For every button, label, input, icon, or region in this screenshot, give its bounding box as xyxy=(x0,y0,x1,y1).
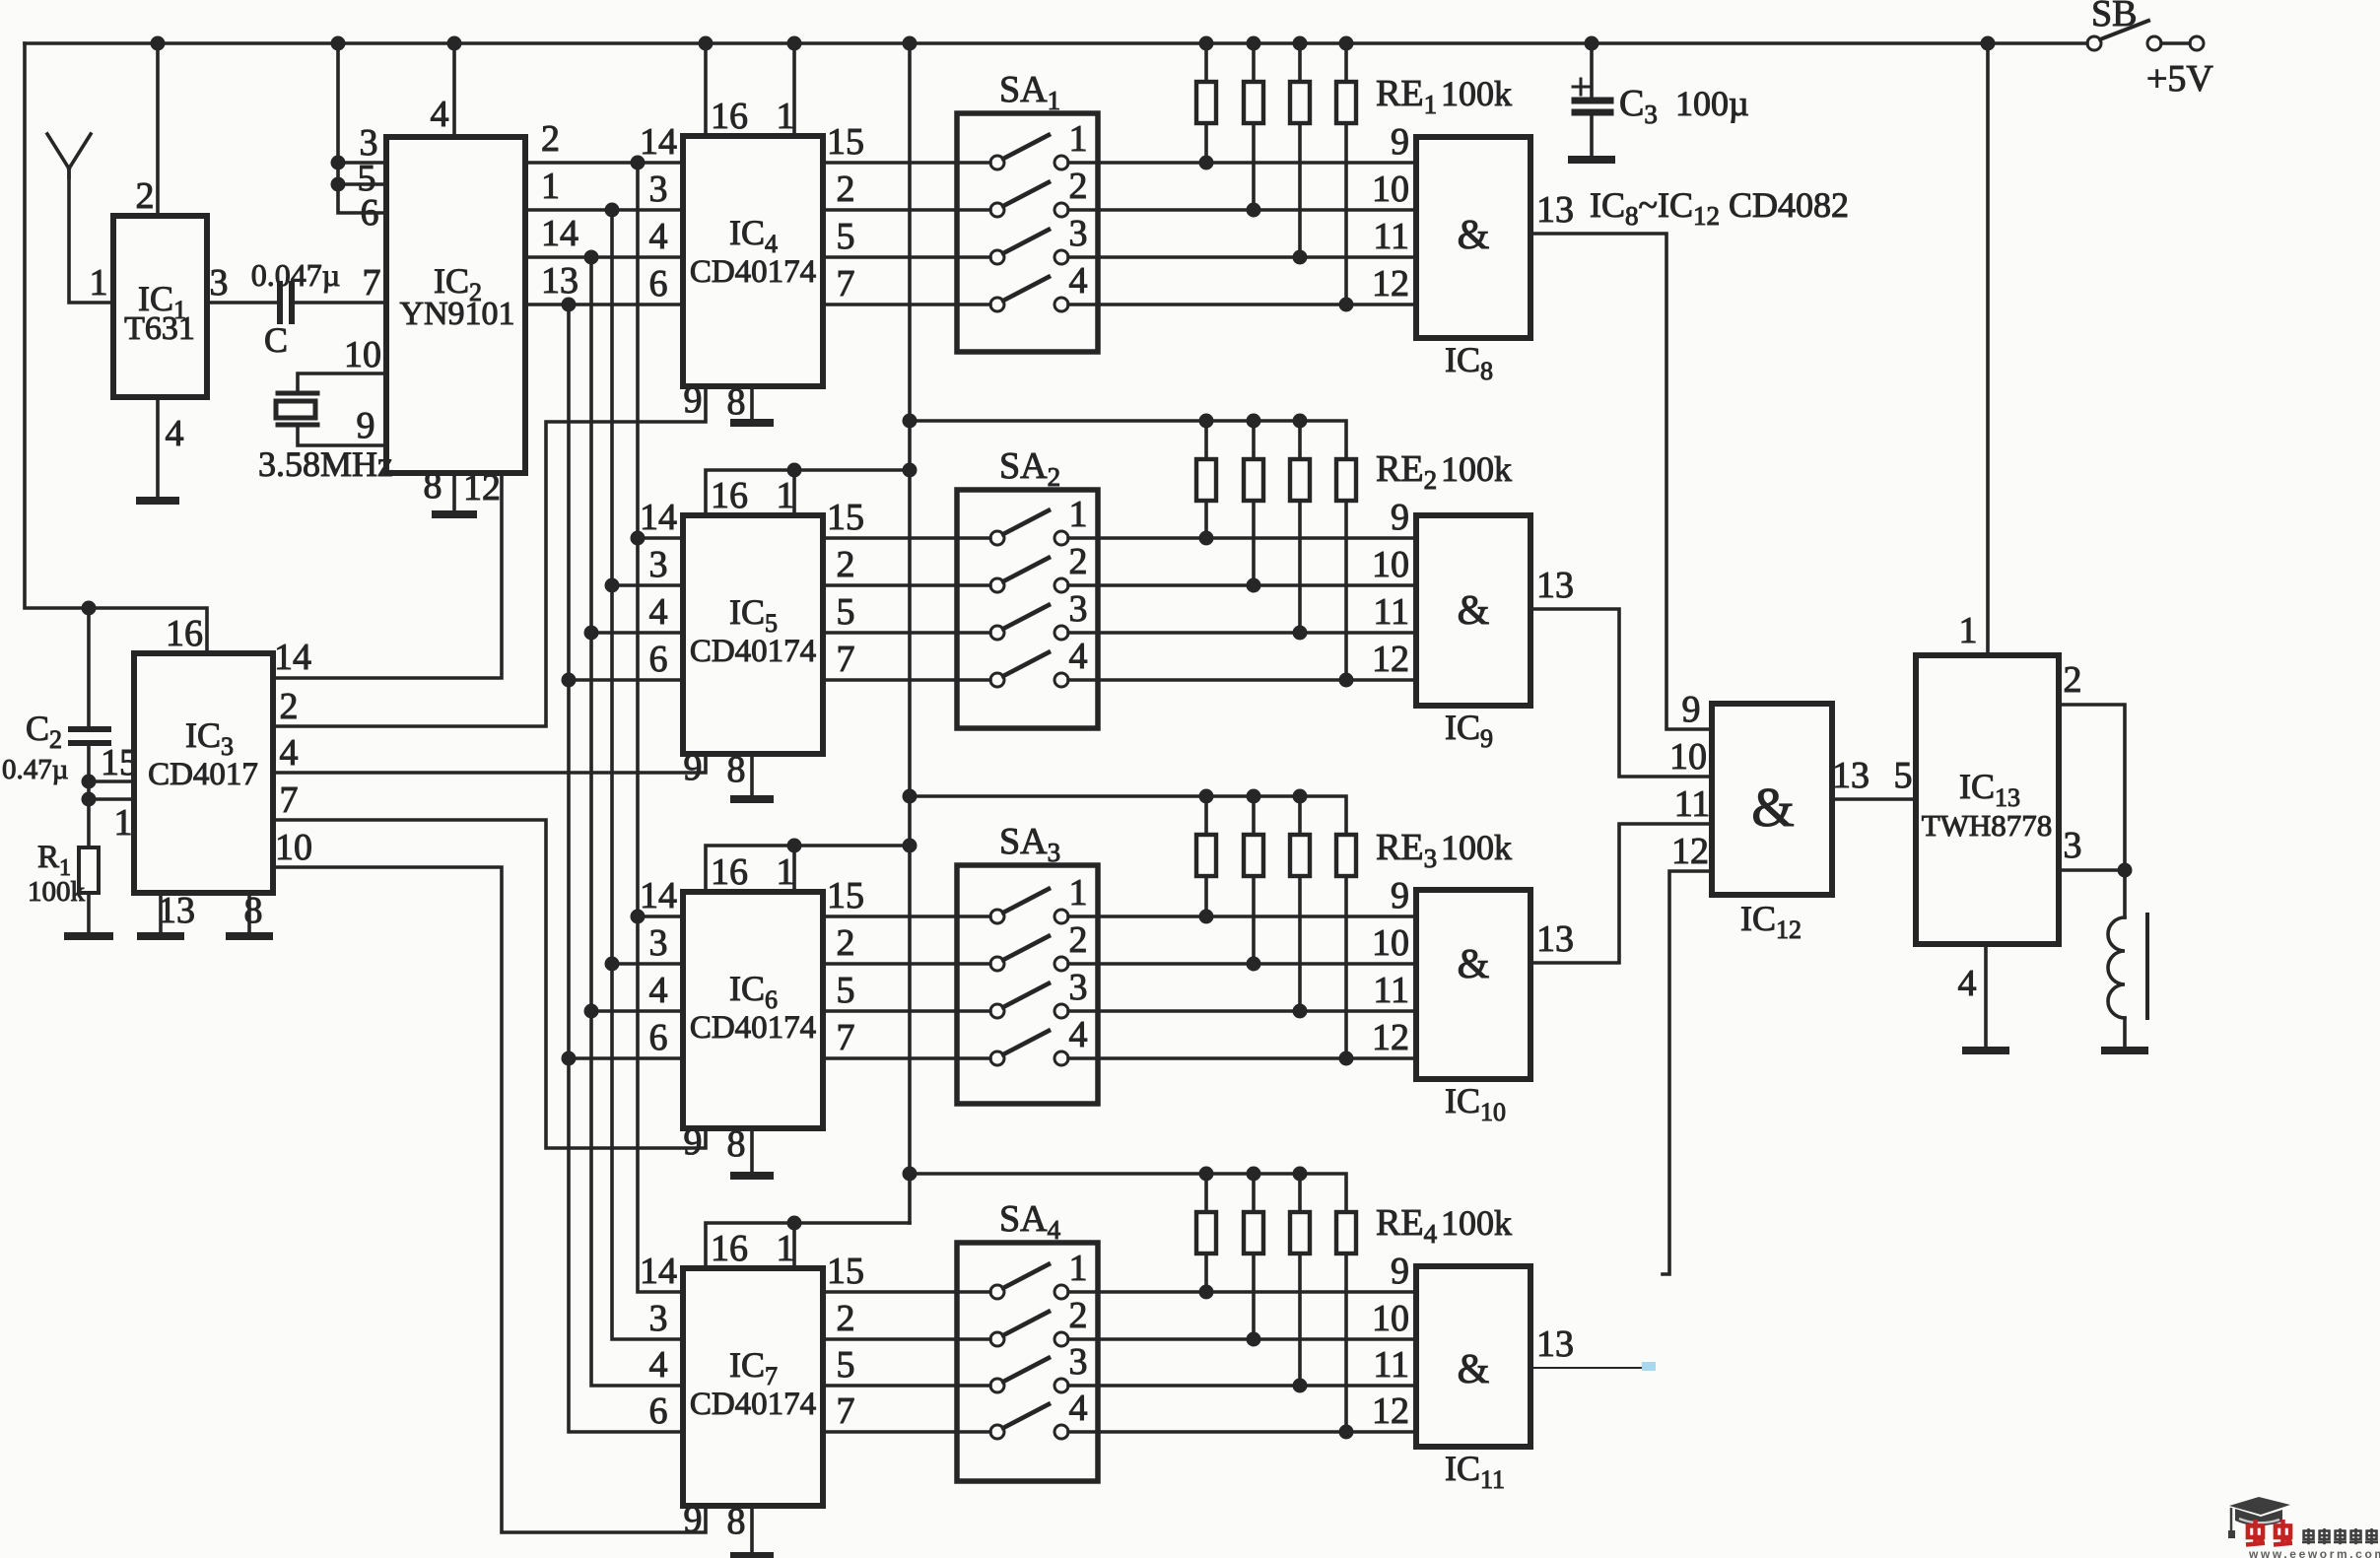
pin 2 label IC4 right xyxy=(837,169,855,210)
resistor RE2 unit 2 100k xyxy=(1244,421,1263,585)
svg-text:5: 5 xyxy=(837,1344,855,1386)
watermark www.eeworm.com xyxy=(2248,1547,2380,1558)
label RE1 100k xyxy=(1376,73,1512,119)
label IC4 CD40174 xyxy=(690,213,816,290)
capacitor C2 label xyxy=(26,709,62,754)
wire: SA2 contact 2 to IC9 input xyxy=(1068,578,1416,593)
resistor RE3 unit 1 100k xyxy=(1196,796,1216,916)
label SA1 contact 3 xyxy=(1069,213,1088,254)
pin 4 label IC2 xyxy=(431,94,449,135)
pin 10 label IC9 xyxy=(1372,544,1409,585)
pin 7 label IC4 right xyxy=(837,263,855,305)
pin 8 label IC4 bottom xyxy=(727,381,746,423)
svg-text:C: C xyxy=(264,320,288,360)
svg-text:13: 13 xyxy=(1536,189,1574,231)
IC1 box T631 xyxy=(113,216,207,397)
wire: crystal to IC2 pin 9 xyxy=(298,425,386,445)
wire: IC7 pin 2 to SA4 xyxy=(823,1337,990,1341)
svg-text:2: 2 xyxy=(2064,659,2082,701)
wire: IC4 pin 8 to ground xyxy=(750,386,754,420)
svg-text:2: 2 xyxy=(837,169,855,210)
wire: SA2 contact 1 to IC9 input xyxy=(1068,531,1416,546)
svg-text:4: 4 xyxy=(280,732,299,774)
label SA2 xyxy=(999,445,1060,492)
svg-text:9: 9 xyxy=(684,1499,703,1540)
ground: IC13 pin 4 xyxy=(1966,1047,2006,1054)
label SA3 contact 1 xyxy=(1069,872,1088,914)
label 0.047u xyxy=(251,257,340,293)
wire: IC1 pin 2 to rail xyxy=(156,43,160,216)
svg-text:4: 4 xyxy=(1958,963,1977,1004)
wire: SA3 contact 2 to IC10 input xyxy=(1068,957,1416,972)
wire: data bus line 2 to IC5 IC6 IC7 xyxy=(605,210,684,1339)
pin 9 label IC2 xyxy=(357,405,375,446)
inductor relay coil xyxy=(2108,914,2147,1018)
resistor RE1 unit 4 100k xyxy=(1336,43,1356,305)
svg-text:TWH8778: TWH8778 xyxy=(1922,808,2053,843)
wire: IC7 pin 8 to ground xyxy=(750,1506,754,1553)
wire: antenna to IC1 pin 1 xyxy=(69,169,113,303)
svg-text:7: 7 xyxy=(837,1390,855,1432)
svg-text:6: 6 xyxy=(649,263,668,305)
svg-text:10: 10 xyxy=(275,827,312,868)
label IC11 name xyxy=(1445,1449,1505,1494)
pin 16 label IC7 xyxy=(711,1228,748,1269)
pin 10 label IC12 xyxy=(1669,736,1707,778)
capacitor C3 100u xyxy=(1573,43,1610,156)
pin 2 label IC7 right xyxy=(837,1298,855,1339)
wire: IC11 pin 13 output xyxy=(1530,1362,1656,1371)
svg-text:100k: 100k xyxy=(1441,449,1512,489)
resistor RE4 unit 2 100k xyxy=(1244,1174,1263,1339)
pin 13 label IC10 xyxy=(1536,918,1574,960)
pin 8 label IC2 xyxy=(424,465,442,507)
svg-text:12: 12 xyxy=(1372,1390,1409,1432)
switch SA4 pole 3 xyxy=(990,1358,1068,1392)
switch SA2 pole 3 xyxy=(990,605,1068,640)
label IC5 CD40174 xyxy=(690,592,816,669)
pin 12 label IC8 xyxy=(1372,263,1409,305)
svg-text:3: 3 xyxy=(2064,825,2082,866)
pin 13 label IC9 xyxy=(1536,565,1574,606)
label SA2 contact 4 xyxy=(1069,636,1088,677)
AND gate IC10 box xyxy=(1416,890,1530,1079)
svg-text:100k: 100k xyxy=(1441,828,1512,867)
watermark dianzi xiazaizhan text xyxy=(2302,1528,2378,1544)
wire: rail to IC13 pin 1 xyxy=(1986,43,1990,655)
label amp IC8 xyxy=(1458,213,1490,258)
svg-text:4: 4 xyxy=(1069,1388,1088,1429)
wire: supply rail to RE4 xyxy=(910,1167,1346,1213)
wire: IC7 pins 16 1 supply xyxy=(706,1216,910,1269)
svg-text:16: 16 xyxy=(166,613,203,654)
pin 9 label IC6 bottom xyxy=(684,1121,703,1163)
svg-text:15: 15 xyxy=(827,875,864,916)
svg-text:6: 6 xyxy=(361,192,379,234)
svg-text:YN9101: YN9101 xyxy=(399,296,514,332)
IC6 box CD40174 xyxy=(683,892,823,1128)
pin 10 label IC10 xyxy=(1372,922,1409,964)
pin 10 label IC2 xyxy=(344,334,381,375)
svg-text:9: 9 xyxy=(357,405,375,446)
label SA2 contact 3 xyxy=(1069,588,1088,630)
svg-text:14: 14 xyxy=(640,497,677,538)
wire: IC4 pin 5 to SA1 xyxy=(823,255,990,259)
resistor RE3 unit 2 100k xyxy=(1244,796,1263,964)
svg-text:1: 1 xyxy=(1959,610,1978,651)
resistor RE4 unit 3 100k xyxy=(1290,1174,1310,1386)
svg-text:11: 11 xyxy=(1674,783,1711,825)
svg-text:9: 9 xyxy=(684,1121,703,1163)
IC7 box CD40174 xyxy=(683,1268,823,1506)
wire: IC5 pin 2 to SA2 xyxy=(823,583,990,587)
IC2 box YN9101 xyxy=(386,137,525,473)
svg-text:12: 12 xyxy=(1372,263,1409,305)
pin 1 label IC2 right xyxy=(541,166,560,207)
pin 5 label IC6 right xyxy=(837,970,855,1011)
label amp IC12 xyxy=(1751,778,1795,839)
svg-text:3: 3 xyxy=(1069,967,1088,1008)
wire: +5V top supply rail xyxy=(25,41,2087,45)
svg-text:+5V: +5V xyxy=(2146,58,2213,100)
svg-text:1: 1 xyxy=(1069,1248,1088,1289)
pin 15 label IC4 right xyxy=(827,121,864,163)
pin 2 label IC5 right xyxy=(837,544,855,585)
ground: IC5 pin 8 xyxy=(734,795,770,803)
AND gate IC11 box xyxy=(1416,1266,1530,1447)
svg-text:&: & xyxy=(1458,1347,1490,1392)
label IC13 TWH8778 xyxy=(1922,767,2053,843)
pin 9 label IC10 xyxy=(1391,875,1409,916)
svg-text:14: 14 xyxy=(640,1251,677,1292)
svg-text:3: 3 xyxy=(1069,213,1088,254)
pin 15 label IC7 right xyxy=(827,1251,864,1292)
svg-text:1: 1 xyxy=(114,802,133,844)
label IC12 name xyxy=(1740,899,1802,944)
svg-text:2: 2 xyxy=(136,175,155,217)
resistor RE2 unit 3 100k xyxy=(1290,421,1310,633)
svg-text:8: 8 xyxy=(727,749,746,790)
label C3 100u xyxy=(1619,83,1749,129)
ground: R1 xyxy=(68,932,109,940)
label SA4 contact 2 xyxy=(1069,1295,1088,1336)
wire: SA1 contact 1 to IC8 input xyxy=(1068,156,1416,170)
label IC8 name xyxy=(1445,340,1493,385)
svg-text:2: 2 xyxy=(1069,919,1088,961)
wire: SA3 contact 1 to IC10 input xyxy=(1068,910,1416,924)
watermark eeworm logo cap xyxy=(2228,1497,2290,1538)
pin 1 label IC7 xyxy=(777,1228,795,1269)
svg-text:0.047µ: 0.047µ xyxy=(251,257,340,293)
pin 4 label IC1 xyxy=(166,413,184,454)
wire: IC2 pin 10 to crystal xyxy=(298,373,386,393)
svg-text:2: 2 xyxy=(1069,1295,1088,1336)
svg-text:11: 11 xyxy=(1373,591,1409,633)
pin 1 label IC4 xyxy=(777,96,795,137)
svg-text:9: 9 xyxy=(684,379,703,421)
pin 1 label IC3 xyxy=(114,802,133,844)
label SA3 contact 3 xyxy=(1069,967,1088,1008)
switch SA4 pole 2 xyxy=(990,1312,1068,1346)
ground: IC7 pin 8 xyxy=(734,1552,770,1558)
resistor RE2 unit 4 100k xyxy=(1336,459,1356,680)
pin 9 label IC8 xyxy=(1391,121,1409,163)
svg-text:4: 4 xyxy=(649,591,668,633)
wire: left supply drop to IC3 pin 16 xyxy=(25,43,207,653)
wire: IC4 pin 2 to SA1 xyxy=(823,208,990,212)
svg-text:1: 1 xyxy=(777,96,795,137)
pin 4 label IC13 xyxy=(1958,963,1977,1004)
svg-text:10: 10 xyxy=(1372,544,1409,585)
IC4 box CD40174 xyxy=(683,136,823,386)
switch SA2 pole 2 xyxy=(990,558,1068,592)
label R1 xyxy=(37,840,71,881)
pin 2 label IC6 right xyxy=(837,922,855,964)
pin 13 label IC2 right xyxy=(541,260,578,302)
pin 15 label IC3 xyxy=(101,742,138,783)
pin 15 label IC5 right xyxy=(827,497,864,538)
pin 14 label IC4 left xyxy=(640,121,677,163)
svg-text:9: 9 xyxy=(1391,121,1409,163)
pin 12 label IC11 xyxy=(1372,1390,1409,1432)
wire: SA2 contact 4 to IC9 input xyxy=(1068,673,1416,688)
svg-text:8: 8 xyxy=(424,465,442,507)
wire: IC8 pin 13 to IC12 pin 9 xyxy=(1530,234,1712,729)
svg-text:8: 8 xyxy=(727,1501,746,1542)
pin 3 label IC1 xyxy=(210,262,229,304)
svg-text:&: & xyxy=(1751,778,1795,839)
wire: IC2 pin 2 row to IC4 xyxy=(525,156,683,170)
svg-text:7: 7 xyxy=(837,263,855,305)
ground: IC3 pin 13 xyxy=(141,932,180,940)
crystal 3.58MHz xyxy=(276,393,317,425)
SA4 switch box xyxy=(957,1243,1098,1481)
svg-text:3: 3 xyxy=(1069,1341,1088,1383)
wire: SA3 contact 4 to IC10 input xyxy=(1068,1051,1416,1066)
pin 8 label IC7 bottom xyxy=(727,1501,746,1542)
pin 12 label IC9 xyxy=(1372,639,1409,680)
wire: IC4 pins 16 1 to rail xyxy=(706,43,794,136)
svg-text:7: 7 xyxy=(363,262,381,304)
wire: IC5 pin 8 to ground xyxy=(750,754,754,796)
pin 3 label IC13 xyxy=(2064,825,2082,866)
svg-text:6: 6 xyxy=(649,1017,668,1058)
wire: IC2 pin 14 row to IC4 xyxy=(525,250,683,265)
svg-text:16: 16 xyxy=(711,851,748,893)
wire: IC3 pin 2 to IC4 pin 9 xyxy=(273,386,706,726)
wire: IC7 pin 5 to SA4 xyxy=(823,1384,990,1388)
svg-text:9: 9 xyxy=(1391,1251,1409,1292)
wire: IC5 pin 15 to SA2 xyxy=(823,536,990,540)
svg-text:15: 15 xyxy=(827,497,864,538)
wire: IC3 pin 10 to IC7 pin 9 xyxy=(273,867,706,1532)
resistor R1 100k xyxy=(79,847,99,893)
wire: coil to ground xyxy=(2123,1018,2127,1047)
label IC1 T631 xyxy=(124,279,195,347)
resistor RE4 unit 4 100k xyxy=(1336,1212,1356,1432)
wire: data bus line 4 to IC5 IC6 IC7 xyxy=(562,305,684,1432)
pin 14 label IC3 xyxy=(274,637,311,678)
svg-text:1: 1 xyxy=(90,262,108,304)
svg-text:11: 11 xyxy=(1373,970,1409,1011)
wire: IC6 pin 2 to SA3 xyxy=(823,962,990,966)
wire: SA2 contact 3 to IC9 input xyxy=(1068,626,1416,641)
svg-text:CD4017: CD4017 xyxy=(148,757,258,792)
svg-text:1: 1 xyxy=(777,1228,795,1269)
label RE4 100k xyxy=(1376,1202,1512,1249)
svg-text:11: 11 xyxy=(1373,1344,1409,1386)
switch SA1 pole 3 xyxy=(990,230,1068,264)
svg-text:15: 15 xyxy=(827,121,864,163)
pin 14 label IC5 left xyxy=(640,497,677,538)
label +5V xyxy=(2146,58,2213,100)
wire: SA1 contact 4 to IC8 input xyxy=(1068,298,1416,312)
pin 7 label IC5 right xyxy=(837,639,855,680)
svg-text:4: 4 xyxy=(1069,260,1088,302)
svg-text:CD40174: CD40174 xyxy=(690,634,816,669)
pin 7 label IC6 right xyxy=(837,1017,855,1058)
switch SA3 pole 4 xyxy=(990,1031,1068,1065)
AND gate IC12 box xyxy=(1712,704,1832,895)
svg-text:16: 16 xyxy=(711,1228,748,1269)
wire: IC2 pin 1 row to IC4 xyxy=(525,203,683,218)
wire: IC6 pin 15 to SA3 xyxy=(823,914,990,918)
pin 6 label IC6 left xyxy=(649,1017,668,1058)
wire: supply rail to RE2 xyxy=(910,414,1346,460)
resistor RE1 unit 1 100k xyxy=(1196,43,1216,163)
svg-text:2: 2 xyxy=(837,1298,855,1339)
pin 12 label IC2 xyxy=(463,467,501,508)
ground: IC3 pin 8 xyxy=(230,932,269,940)
svg-text:3: 3 xyxy=(649,544,668,585)
wire: IC1 pin 4 to ground xyxy=(156,397,160,498)
svg-text:CD40174: CD40174 xyxy=(690,1010,816,1046)
switch SA3 pole 1 xyxy=(990,889,1068,923)
wire: IC12 pin 12 stub xyxy=(1663,871,1712,1274)
IC13 box TWH8778 xyxy=(1916,655,2059,944)
pin 7 label IC7 right xyxy=(837,1390,855,1432)
svg-text:12: 12 xyxy=(463,467,501,508)
pin 13 label IC3 xyxy=(158,890,195,931)
label SA3 xyxy=(999,821,1060,867)
svg-text:4: 4 xyxy=(166,413,184,454)
SA2 switch box xyxy=(957,490,1098,728)
label IC9 name xyxy=(1445,708,1493,753)
svg-text:11: 11 xyxy=(1373,216,1409,257)
svg-text:&: & xyxy=(1458,942,1490,987)
label SA1 contact 1 xyxy=(1069,118,1088,160)
svg-text:4: 4 xyxy=(649,970,668,1011)
pin 1 label IC5 xyxy=(777,475,795,516)
pin 11 label IC12 xyxy=(1674,783,1711,825)
IC3 box CD4017 xyxy=(134,653,273,893)
wire: capacitor C to IC2 pin 7 xyxy=(292,301,386,305)
resistor RE2 unit 1 100k xyxy=(1196,421,1216,538)
switch SA1 pole 4 xyxy=(990,277,1068,311)
svg-text:14: 14 xyxy=(640,121,677,163)
switch SA1 pole 2 xyxy=(990,182,1068,217)
wire: IC3 pin 4 to IC5 pin 9 xyxy=(273,754,706,773)
pin 9 label IC12 xyxy=(1682,689,1701,730)
pin 2 label IC2 right xyxy=(541,118,560,160)
SA3 switch box xyxy=(957,865,1098,1104)
label SA1 contact 4 xyxy=(1069,260,1088,302)
ground: IC2 pin 8 xyxy=(436,510,473,518)
ground: coil xyxy=(2105,1047,2144,1054)
label SA4 xyxy=(999,1198,1061,1245)
pin 14 label IC7 left xyxy=(640,1251,677,1292)
svg-text:8: 8 xyxy=(727,381,746,423)
switch SA2 pole 4 xyxy=(990,652,1068,687)
wire: IC6 pin 8 to ground xyxy=(750,1128,754,1173)
wire: IC2 pin 4 to rail xyxy=(452,43,456,137)
label amp IC10 xyxy=(1458,942,1490,987)
AND gate IC8 box xyxy=(1416,137,1530,338)
label C xyxy=(264,320,288,360)
label SA3 contact 4 xyxy=(1069,1014,1088,1055)
pin 10 label IC11 xyxy=(1372,1298,1409,1339)
pin 1 label IC6 xyxy=(777,851,795,893)
pin 2 label IC13 xyxy=(2064,659,2082,701)
svg-text:6: 6 xyxy=(649,1390,668,1432)
wire: IC3 pin 7 to IC6 pin 9 xyxy=(273,820,706,1148)
label amp IC11 xyxy=(1458,1347,1490,1392)
svg-text:16: 16 xyxy=(711,96,748,137)
svg-text:3: 3 xyxy=(649,169,668,210)
pin 11 label IC11 xyxy=(1373,1344,1409,1386)
pin 3 label IC7 left xyxy=(649,1298,668,1339)
label IC10 name xyxy=(1445,1081,1506,1126)
pin 9 label IC5 bottom xyxy=(684,747,703,788)
label SB xyxy=(2091,0,2137,34)
svg-text:&: & xyxy=(1458,213,1490,258)
pin 9 label IC9 xyxy=(1391,497,1409,538)
svg-text:100k: 100k xyxy=(1441,1203,1512,1243)
wire: to IC3 pin 15 xyxy=(89,779,134,783)
wire: IC1 pin 3 to capacitor C xyxy=(207,301,280,305)
label 0.47u xyxy=(2,754,68,785)
svg-text:9: 9 xyxy=(684,747,703,788)
svg-text:2: 2 xyxy=(1069,541,1088,582)
wire: IC6 pins 16 1 supply xyxy=(706,839,910,893)
svg-text:14: 14 xyxy=(541,213,578,254)
pin 9 label IC7 bottom xyxy=(684,1499,703,1540)
label IC6 CD40174 xyxy=(690,969,816,1046)
pin 6 label IC5 left xyxy=(649,639,668,680)
svg-text:12: 12 xyxy=(1372,1017,1409,1058)
wire: SA4 contact 4 to IC11 input xyxy=(1068,1425,1416,1440)
pin 3 label IC4 left xyxy=(649,169,668,210)
wire: SA4 contact 3 to IC11 input xyxy=(1068,1379,1416,1393)
pin 1 label IC13 xyxy=(1959,610,1978,651)
wire: IC5 pin 7 to SA2 xyxy=(823,678,990,682)
svg-text:10: 10 xyxy=(1669,736,1707,778)
label amp IC9 xyxy=(1458,588,1490,634)
wire: IC13 pin 2 xyxy=(2059,705,2125,917)
svg-text:3: 3 xyxy=(210,262,229,304)
svg-text:2: 2 xyxy=(280,686,299,727)
svg-text:7: 7 xyxy=(837,1017,855,1058)
pin 8 label IC6 bottom xyxy=(727,1123,746,1165)
svg-text:3: 3 xyxy=(649,922,668,964)
pin 4 label IC4 left xyxy=(649,216,668,257)
svg-text:4: 4 xyxy=(649,1344,668,1386)
svg-text:15: 15 xyxy=(101,742,138,783)
wire: C2 R1 chain xyxy=(71,608,108,933)
pin 5 label IC13 xyxy=(1894,755,1913,796)
switch SA4 pole 1 xyxy=(990,1264,1068,1299)
wire: IC5 pin 5 to SA2 xyxy=(823,631,990,635)
